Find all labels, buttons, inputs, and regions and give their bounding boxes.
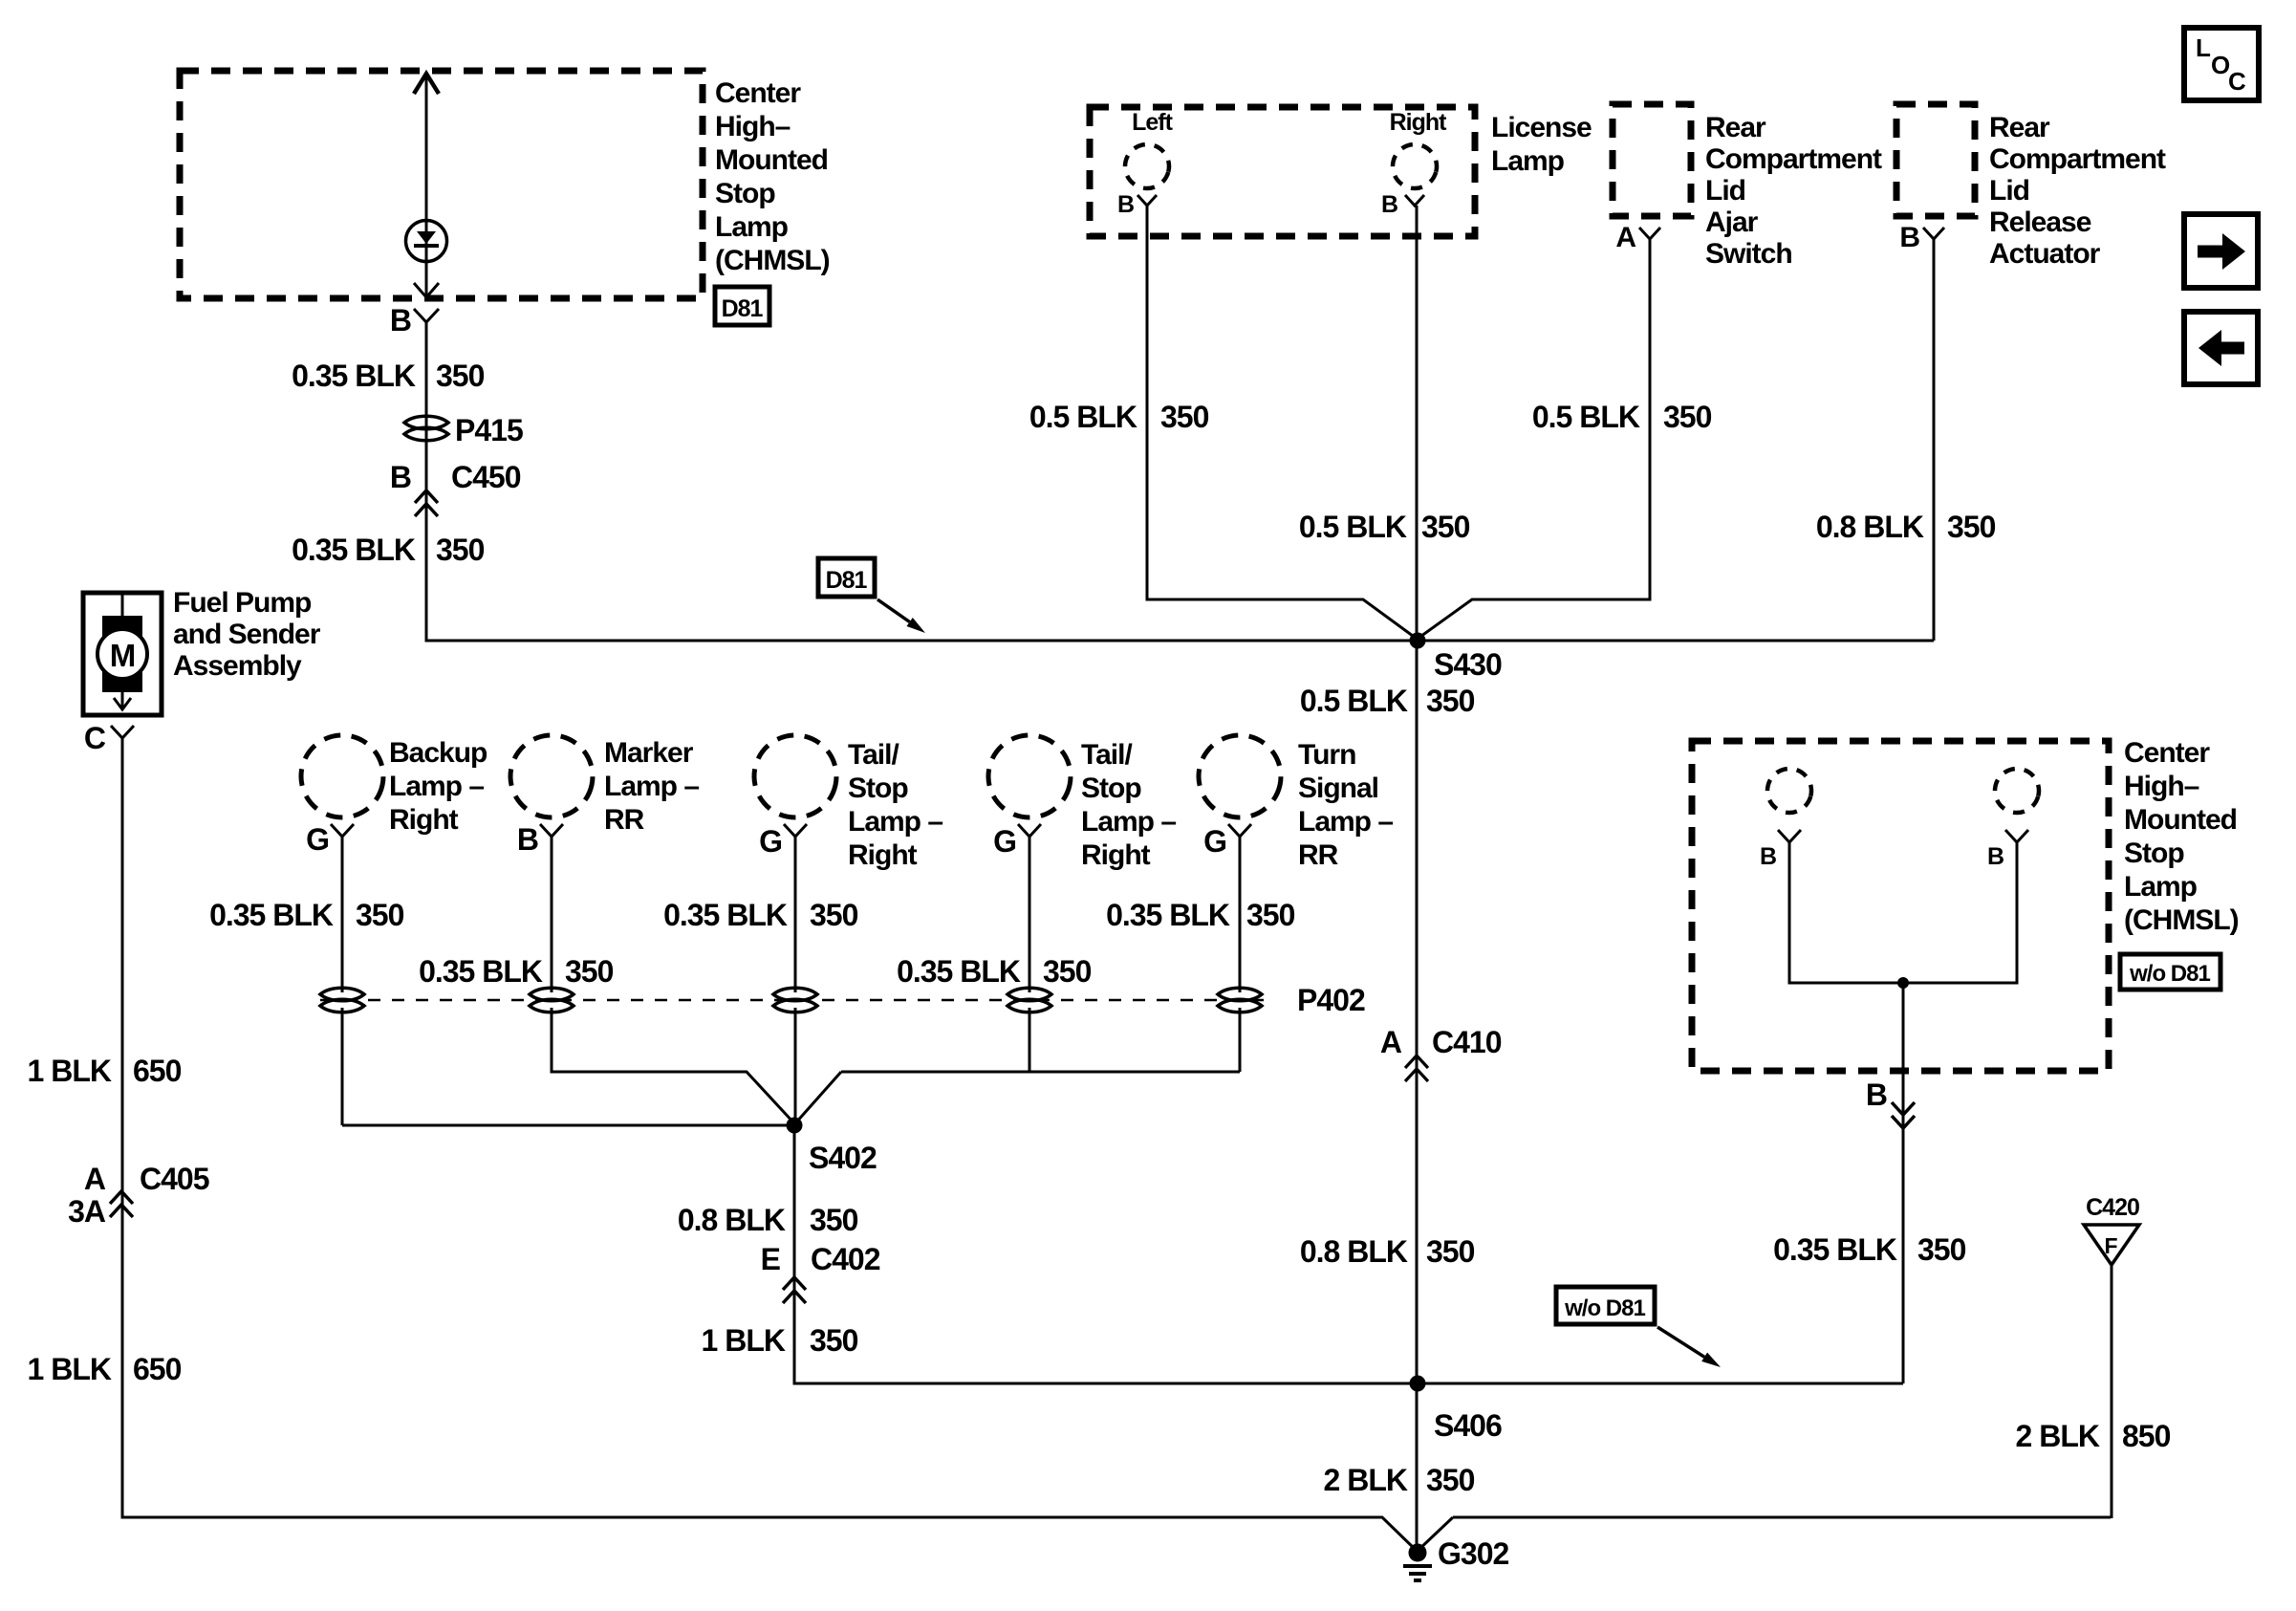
svg-text:350: 350 — [810, 1203, 858, 1237]
svg-text:Mounted: Mounted — [2124, 804, 2237, 836]
svg-text:Center: Center — [715, 77, 801, 109]
svg-text:B: B — [1866, 1078, 1887, 1112]
svg-text:Lamp: Lamp — [1491, 145, 1565, 177]
svg-text:G: G — [759, 824, 782, 859]
svg-text:Switch: Switch — [1705, 238, 1792, 270]
svg-text:2 BLK: 2 BLK — [1324, 1463, 1408, 1497]
svg-text:G: G — [1203, 824, 1226, 859]
svg-text:650: 650 — [133, 1352, 182, 1386]
svg-text:Lamp –: Lamp – — [389, 771, 484, 802]
svg-text:Lamp –: Lamp – — [1298, 806, 1393, 838]
svg-text:C420: C420 — [2086, 1194, 2139, 1221]
svg-text:B: B — [390, 460, 411, 494]
svg-text:350: 350 — [1426, 1463, 1475, 1497]
svg-text:B: B — [1117, 191, 1134, 218]
svg-text:0.5 BLK: 0.5 BLK — [1299, 510, 1407, 544]
svg-text:D81: D81 — [722, 295, 764, 322]
svg-text:C405: C405 — [140, 1162, 209, 1196]
svg-text:350: 350 — [1426, 684, 1475, 718]
svg-text:350: 350 — [810, 898, 858, 932]
svg-text:850: 850 — [2122, 1419, 2171, 1453]
svg-text:L: L — [2196, 33, 2211, 62]
svg-text:G: G — [993, 824, 1016, 859]
svg-text:License: License — [1491, 112, 1592, 143]
svg-text:B: B — [1381, 191, 1397, 218]
svg-text:B: B — [517, 822, 538, 857]
svg-text:S406: S406 — [1434, 1408, 1502, 1443]
svg-text:0.8 BLK: 0.8 BLK — [1816, 510, 1924, 544]
svg-text:High–: High– — [715, 111, 791, 142]
svg-text:Stop: Stop — [715, 178, 775, 209]
svg-text:Compartment: Compartment — [1989, 143, 2166, 175]
svg-text:P402: P402 — [1297, 983, 1365, 1017]
svg-text:1 BLK: 1 BLK — [28, 1352, 112, 1386]
svg-text:Stop: Stop — [2124, 838, 2184, 869]
svg-text:Rear: Rear — [1989, 112, 2050, 143]
svg-text:350: 350 — [1947, 510, 1996, 544]
svg-text:(CHMSL): (CHMSL) — [2124, 904, 2239, 936]
svg-text:Signal: Signal — [1298, 773, 1378, 804]
svg-text:C: C — [2228, 67, 2246, 96]
svg-text:Lid: Lid — [1705, 175, 1745, 207]
svg-text:0.35 BLK: 0.35 BLK — [663, 898, 788, 932]
svg-text:Lamp: Lamp — [2124, 871, 2198, 903]
svg-text:w/o D81: w/o D81 — [1564, 1295, 1645, 1321]
svg-text:Compartment: Compartment — [1705, 143, 1882, 175]
svg-text:350: 350 — [436, 359, 485, 393]
svg-text:w/o D81: w/o D81 — [2129, 961, 2210, 987]
svg-text:0.35 BLK: 0.35 BLK — [419, 954, 543, 989]
svg-text:Tail/: Tail/ — [848, 739, 899, 771]
svg-text:350: 350 — [1160, 400, 1209, 434]
svg-text:B: B — [1987, 843, 2004, 870]
svg-text:S430: S430 — [1434, 647, 1502, 682]
svg-text:350: 350 — [356, 898, 404, 932]
svg-text:A: A — [1615, 222, 1635, 253]
svg-text:Right: Right — [1081, 839, 1151, 871]
svg-text:350: 350 — [1663, 400, 1712, 434]
svg-text:0.35 BLK: 0.35 BLK — [897, 954, 1021, 989]
svg-text:Lamp –: Lamp – — [604, 771, 699, 802]
svg-text:F: F — [2104, 1233, 2117, 1258]
svg-text:Ajar: Ajar — [1705, 207, 1759, 238]
svg-text:0.35 BLK: 0.35 BLK — [292, 359, 416, 393]
svg-text:D81: D81 — [826, 567, 868, 594]
svg-text:350: 350 — [1421, 510, 1470, 544]
svg-text:Lid: Lid — [1989, 175, 2029, 207]
svg-text:Fuel Pump: Fuel Pump — [173, 587, 312, 619]
svg-text:Left: Left — [1132, 109, 1174, 136]
svg-text:G302: G302 — [1438, 1536, 1508, 1571]
svg-text:O: O — [2211, 51, 2230, 79]
svg-text:0.35 BLK: 0.35 BLK — [1106, 898, 1230, 932]
svg-text:E: E — [761, 1242, 781, 1276]
svg-text:Assembly: Assembly — [173, 650, 302, 682]
svg-text:C450: C450 — [451, 460, 521, 494]
svg-text:350: 350 — [1043, 954, 1092, 989]
svg-text:A: A — [1380, 1025, 1402, 1059]
svg-text:Lamp –: Lamp – — [848, 806, 942, 838]
svg-text:Marker: Marker — [604, 737, 694, 769]
svg-text:0.5 BLK: 0.5 BLK — [1029, 400, 1137, 434]
svg-text:0.35 BLK: 0.35 BLK — [209, 898, 334, 932]
svg-text:350: 350 — [1917, 1232, 1966, 1267]
svg-text:Tail/: Tail/ — [1081, 739, 1133, 771]
svg-text:A: A — [84, 1162, 106, 1196]
svg-text:0.8 BLK: 0.8 BLK — [1300, 1234, 1408, 1269]
svg-text:Turn: Turn — [1298, 739, 1355, 771]
svg-text:0.35 BLK: 0.35 BLK — [1773, 1232, 1897, 1267]
svg-text:1 BLK: 1 BLK — [28, 1054, 112, 1088]
svg-text:Actuator: Actuator — [1989, 238, 2101, 270]
svg-text:0.8 BLK: 0.8 BLK — [678, 1203, 786, 1237]
svg-text:(CHMSL): (CHMSL) — [715, 245, 830, 276]
svg-text:P415: P415 — [455, 413, 523, 447]
svg-text:3A: 3A — [68, 1194, 106, 1229]
svg-text:B: B — [1899, 222, 1919, 253]
svg-text:Rear: Rear — [1705, 112, 1766, 143]
svg-text:S402: S402 — [809, 1141, 877, 1175]
svg-text:G: G — [306, 822, 329, 857]
svg-text:High–: High– — [2124, 771, 2199, 802]
svg-text:350: 350 — [565, 954, 614, 989]
svg-text:Right: Right — [389, 804, 459, 836]
svg-text:350: 350 — [810, 1323, 858, 1358]
svg-text:350: 350 — [436, 533, 485, 567]
svg-text:0.5 BLK: 0.5 BLK — [1532, 400, 1640, 434]
svg-text:Right: Right — [848, 839, 918, 871]
svg-text:Lamp –: Lamp – — [1081, 806, 1176, 838]
svg-text:Right: Right — [1390, 109, 1448, 136]
svg-text:C: C — [84, 721, 106, 755]
svg-text:Stop: Stop — [1081, 773, 1141, 804]
svg-text:B: B — [1760, 843, 1776, 870]
svg-text:2 BLK: 2 BLK — [2016, 1419, 2100, 1453]
svg-text:650: 650 — [133, 1054, 182, 1088]
svg-text:Backup: Backup — [389, 737, 487, 769]
svg-text:C410: C410 — [1432, 1025, 1502, 1059]
svg-text:0.5 BLK: 0.5 BLK — [1300, 684, 1408, 718]
svg-text:RR: RR — [604, 804, 645, 836]
svg-text:Stop: Stop — [848, 773, 908, 804]
svg-text:M: M — [110, 638, 136, 673]
svg-text:350: 350 — [1426, 1234, 1475, 1269]
svg-text:0.35 BLK: 0.35 BLK — [292, 533, 416, 567]
svg-text:Lamp: Lamp — [715, 211, 789, 243]
svg-text:C402: C402 — [811, 1242, 880, 1276]
svg-text:B: B — [390, 303, 411, 337]
svg-text:RR: RR — [1298, 839, 1339, 871]
svg-text:Center: Center — [2124, 737, 2210, 769]
svg-text:350: 350 — [1246, 898, 1295, 932]
svg-text:Release: Release — [1989, 207, 2091, 238]
svg-text:and Sender: and Sender — [173, 619, 321, 650]
svg-text:Mounted: Mounted — [715, 144, 828, 176]
svg-text:1 BLK: 1 BLK — [702, 1323, 786, 1358]
